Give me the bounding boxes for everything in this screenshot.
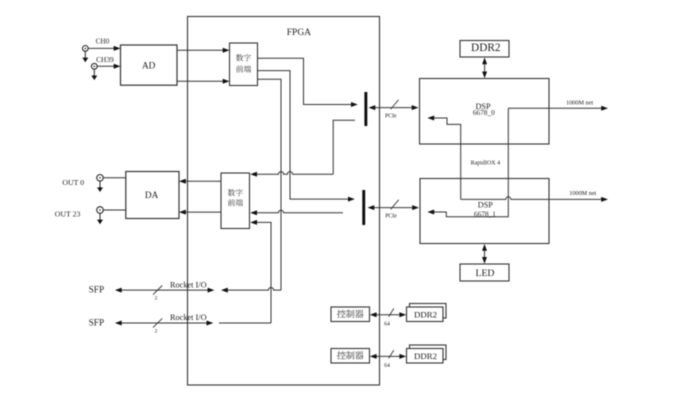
label kongzhiqi (controller) 2 [337, 351, 364, 359]
wire DSP1 to LED bidir [484, 247, 486, 262]
arrow DSP0 step [427, 116, 434, 121]
wire FE1 out B to PCIe bar2 [258, 71, 352, 200]
wire FE1 out A to PCIe bar1 [258, 58, 355, 104]
svg-text:PCIe: PCIe [385, 213, 397, 219]
svg-text:Rocket I/O: Rocket I/O [170, 313, 207, 322]
label kongzhiqi (controller) 1 [337, 310, 364, 318]
wire CH0 to AD [88, 47, 117, 49]
svg-text:DDR2: DDR2 [414, 351, 437, 361]
DSP 6678_0 block [420, 79, 550, 145]
bus slash PCIe 2 [391, 200, 399, 210]
svg-text:OUT 0: OUT 0 [62, 178, 84, 187]
arrow into bar1 right side [369, 105, 376, 110]
wire CH39 to AD [97, 65, 117, 67]
DDR2 stack1 back box [410, 304, 447, 319]
label qianduan (front-end) FE2 [228, 199, 243, 206]
arrow left row2 [115, 321, 122, 326]
arrow left row1 [115, 288, 122, 293]
wire DA to OUT23 [103, 209, 126, 211]
bus slash row1 [153, 286, 162, 295]
AD converter block [121, 45, 178, 85]
DSP 6678_1 block [420, 179, 549, 244]
wire DSP0 step symbol [431, 118, 461, 199]
coax connector OUT23 [97, 207, 104, 221]
svg-text:RapidIOX 4: RapidIOX 4 [471, 161, 501, 167]
svg-text:DDR2: DDR2 [471, 42, 501, 54]
arrow right row2 [207, 321, 214, 326]
arrow into DDR2 stack1 [399, 312, 406, 317]
wire to FE2 mid input with hop [255, 210, 344, 213]
arrow into LED [482, 257, 487, 264]
FPGA box U1 [188, 17, 380, 386]
coax connector CH39 [91, 63, 97, 76]
svg-text:OUT 23: OUT 23 [55, 209, 81, 218]
svg-text:SFP: SFP [89, 286, 105, 296]
wire FE1 out C down to RocketIO row1 [258, 79, 282, 290]
wire RocketIO bidir row2 [118, 322, 209, 324]
bus slash 64 row1 [389, 309, 394, 317]
coax connector OUT0 [97, 175, 104, 189]
arrow into ctrl2 [370, 354, 377, 359]
svg-text:LED: LED [475, 268, 494, 279]
svg-text:64: 64 [384, 321, 390, 327]
wire RocketIO bidir row1 [118, 289, 211, 291]
svg-text:CH39: CH39 [96, 55, 114, 64]
arrow into FE1 upper [223, 48, 230, 53]
arrow into ctrl1 [370, 312, 377, 317]
svg-text:6678_0: 6678_0 [473, 108, 495, 117]
svg-text:CH0: CH0 [96, 38, 110, 46]
label shuzi (digital) FE1 [236, 54, 251, 61]
wire FE2 to DA lower [183, 211, 222, 213]
arrow into DSP0 [412, 105, 419, 110]
DA converter block [126, 172, 179, 219]
arrow into DSP1 [412, 205, 419, 210]
wire RocketIO row2 stub [219, 322, 271, 324]
svg-text:2: 2 [155, 296, 158, 302]
svg-text:SFP: SFP [89, 319, 105, 329]
label shuzi (digital) FE2 [228, 189, 243, 196]
wire stub from PCIe area down [333, 120, 355, 174]
svg-text:FPGA: FPGA [287, 28, 311, 38]
arrow into FE2 mid input [250, 210, 257, 215]
controller block 1 [331, 307, 370, 322]
wire FE2 to DA upper [183, 180, 222, 182]
arrow into RocketIO row1 [221, 288, 228, 293]
label qianduan (front-end) FE1 [236, 65, 251, 72]
bus slash row2 [153, 318, 162, 327]
arrow into DDR2 stack2 [399, 354, 406, 359]
coax connector CH0 [82, 46, 88, 59]
svg-text:DSP: DSP [478, 200, 493, 209]
digital front-end block 2 [221, 173, 250, 229]
wire from RocketIO row2 up to FE2 [255, 222, 272, 323]
arrow into DA lower [179, 210, 186, 215]
DDR2 stack2 back box [410, 345, 447, 360]
svg-text:64: 64 [384, 363, 390, 369]
arrow 1000M net 1 [601, 106, 608, 111]
DDR2 stack1 front box [407, 307, 444, 322]
digital front-end block 1 [230, 43, 258, 86]
arrow into FE2 bottom input [250, 220, 257, 225]
bus slash 64 row2 [389, 350, 394, 358]
arrow into bar1 [351, 102, 358, 107]
arrow DSP1 step [427, 210, 434, 215]
svg-text:1000M net: 1000M net [566, 100, 593, 107]
arrow into DSP0 top [482, 72, 487, 79]
bus slash PCIe 1 [391, 100, 399, 110]
svg-text:1000M net: 1000M net [569, 190, 596, 197]
svg-text:DA: DA [145, 191, 159, 201]
wire 1000M net line 2 with hop [461, 197, 605, 200]
wire AD to FE1 lower [177, 80, 226, 82]
arrow into DSP1 bottom [482, 244, 487, 251]
DDR2 memory top [460, 41, 509, 58]
wire to FE2 top input with hops [255, 172, 334, 175]
arrow into DDR2 top [482, 58, 487, 65]
svg-text:2: 2 [155, 328, 158, 334]
controller block 2 [331, 349, 370, 364]
wire 1000M net line 1 [508, 107, 604, 109]
DDR2 stack2 front box [407, 349, 444, 364]
wire DDR2top to DSP0 bidir [484, 60, 486, 76]
wire ctrl1 to DDR2 stack1 [373, 314, 403, 316]
wire bar2 to DSP1 bidir [371, 207, 416, 209]
arrow into AD in1 [114, 46, 121, 51]
LED block [460, 264, 509, 281]
PCIe switch bar 2 [362, 190, 365, 225]
svg-text:PCIe: PCIe [385, 114, 397, 120]
wire DSP1 step symbol up [431, 108, 508, 216]
arrow into FE2 top input [250, 172, 257, 177]
wire bar1 to DSP0 bidir [372, 107, 415, 109]
svg-text:DDR2: DDR2 [414, 310, 437, 320]
svg-text:Rocket I/O: Rocket I/O [170, 280, 207, 289]
arrow into DA upper [179, 179, 186, 184]
arrow into FE1 lower [223, 79, 230, 84]
arrow right row1 [208, 288, 215, 293]
wire AD to FE1 upper [177, 49, 226, 51]
wire DA to OUT0 [103, 177, 126, 179]
svg-text:AD: AD [142, 61, 156, 71]
wire into RocketIO row1 with hop [225, 288, 282, 291]
wire ctrl2 to DDR2 stack2 [373, 355, 403, 357]
PCIe switch bar 1 [364, 92, 367, 126]
arrow into bar2 [348, 197, 355, 202]
arrow into AD in2 [114, 64, 121, 69]
arrow into bar2 right side [368, 205, 375, 210]
arrow 1000M net 2 [601, 197, 608, 202]
